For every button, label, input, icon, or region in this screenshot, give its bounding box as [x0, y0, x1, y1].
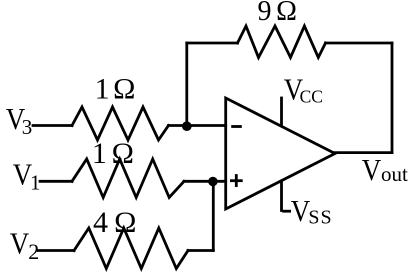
- resistor RF 9 ohm zigzag: [238, 26, 326, 58]
- svg-text:1: 1: [92, 137, 107, 170]
- minus dash of -VSS label: [284, 210, 290, 213]
- op-amp VSS supply stub: [280, 182, 283, 211]
- op-amp U1 triangle: [226, 98, 335, 209]
- wire: V1 source lead: [40, 180, 72, 183]
- wire: feedback vertical from top wire down to inverting node: [185, 43, 188, 124]
- svg-text:Ω: Ω: [114, 206, 136, 239]
- wire: top horizontal left segment: [187, 42, 238, 45]
- svg-text:Ω: Ω: [276, 0, 297, 27]
- wire: V3 source lead: [33, 124, 72, 127]
- wire: R1 to op-amp inverting input: [169, 124, 226, 127]
- op-amp inverting input minus marking: [233, 125, 241, 128]
- resistor R3 4 ohm zigzag (V2 branch): [74, 228, 188, 269]
- wire: R3 to riser horizontal: [188, 249, 213, 252]
- svg-text:4: 4: [93, 206, 108, 239]
- svg-text:9: 9: [258, 0, 272, 27]
- op-amp noninverting input plus marking (horizontal bar): [231, 179, 241, 182]
- wire: output horizontal from op-amp apex: [334, 151, 392, 154]
- wire: R2 to op-amp noninverting input: [184, 180, 226, 183]
- wire: top horizontal right segment: [326, 42, 393, 45]
- svg-text:SS: SS: [308, 207, 332, 229]
- node: inverting input junction dot: [182, 121, 192, 131]
- resistor R1 1 ohm zigzag (V3 branch): [72, 107, 169, 140]
- svg-text:Ω: Ω: [112, 137, 134, 170]
- svg-text:V: V: [362, 153, 381, 187]
- op-amp VCC supply stub: [280, 98, 283, 126]
- label: VCC supply: [284, 73, 323, 107]
- label: Vout output: [362, 153, 408, 187]
- svg-text:CC: CC: [300, 87, 323, 107]
- wire: V2 vertical riser to noninverting node: [212, 181, 215, 250]
- label: V1 source name: [13, 158, 41, 195]
- resistor R2 1 ohm zigzag (V1 branch): [72, 159, 184, 198]
- svg-text:3: 3: [22, 115, 33, 139]
- svg-text:Ω: Ω: [113, 73, 135, 106]
- op-amp noninverting input plus marking (vertical bar): [235, 176, 238, 186]
- label: V3 source name: [6, 102, 33, 139]
- label: V2 source name: [10, 227, 40, 264]
- svg-text:out: out: [381, 162, 408, 186]
- wire: V2 source lead: [38, 249, 74, 252]
- label: VSS supply: [291, 194, 333, 228]
- node: noninverting input junction dot: [208, 177, 217, 186]
- svg-text:2: 2: [28, 239, 39, 264]
- svg-text:V: V: [291, 194, 310, 228]
- svg-text:V: V: [10, 227, 29, 261]
- wire: right feedback vertical: [391, 43, 394, 153]
- svg-text:1: 1: [95, 73, 110, 106]
- svg-text:1: 1: [30, 171, 41, 195]
